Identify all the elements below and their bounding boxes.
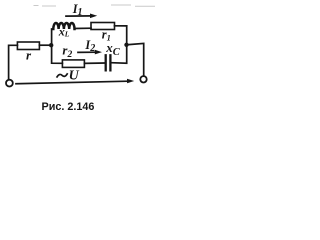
wire outer-left: corner down to left terminal <box>9 45 18 79</box>
resistor r <box>17 42 39 50</box>
wire left node column (top corner to bottom corner) <box>52 29 63 63</box>
svg-text:Рис. 2.146: Рис. 2.146 <box>42 101 95 113</box>
wire from resistor r to left node <box>39 44 51 46</box>
resistor r2 <box>62 60 84 68</box>
svg-text:I2: I2 <box>84 38 95 54</box>
wire from inductor to resistor r1 <box>75 27 92 29</box>
svg-text:xC: xC <box>105 40 121 58</box>
inductor xL <box>53 23 74 29</box>
node junction left <box>49 43 53 47</box>
wire output from right node to right terminal <box>127 43 144 75</box>
wire from r1 to top-right corner <box>115 25 127 27</box>
capacitor xC <box>106 55 111 70</box>
svg-text:I1: I1 <box>72 2 83 18</box>
resistor r1 <box>91 23 115 30</box>
voltage arrow U <box>16 69 134 84</box>
terminal left <box>6 80 13 87</box>
node junction right <box>124 43 128 47</box>
svg-text:r2: r2 <box>62 43 72 60</box>
current arrow I1 <box>66 2 97 18</box>
wire from r2 to capacitor <box>84 62 104 64</box>
wire right node column <box>112 26 127 63</box>
terminal right <box>140 76 146 82</box>
current arrow I2 <box>78 38 102 54</box>
svg-text:U: U <box>69 69 80 84</box>
